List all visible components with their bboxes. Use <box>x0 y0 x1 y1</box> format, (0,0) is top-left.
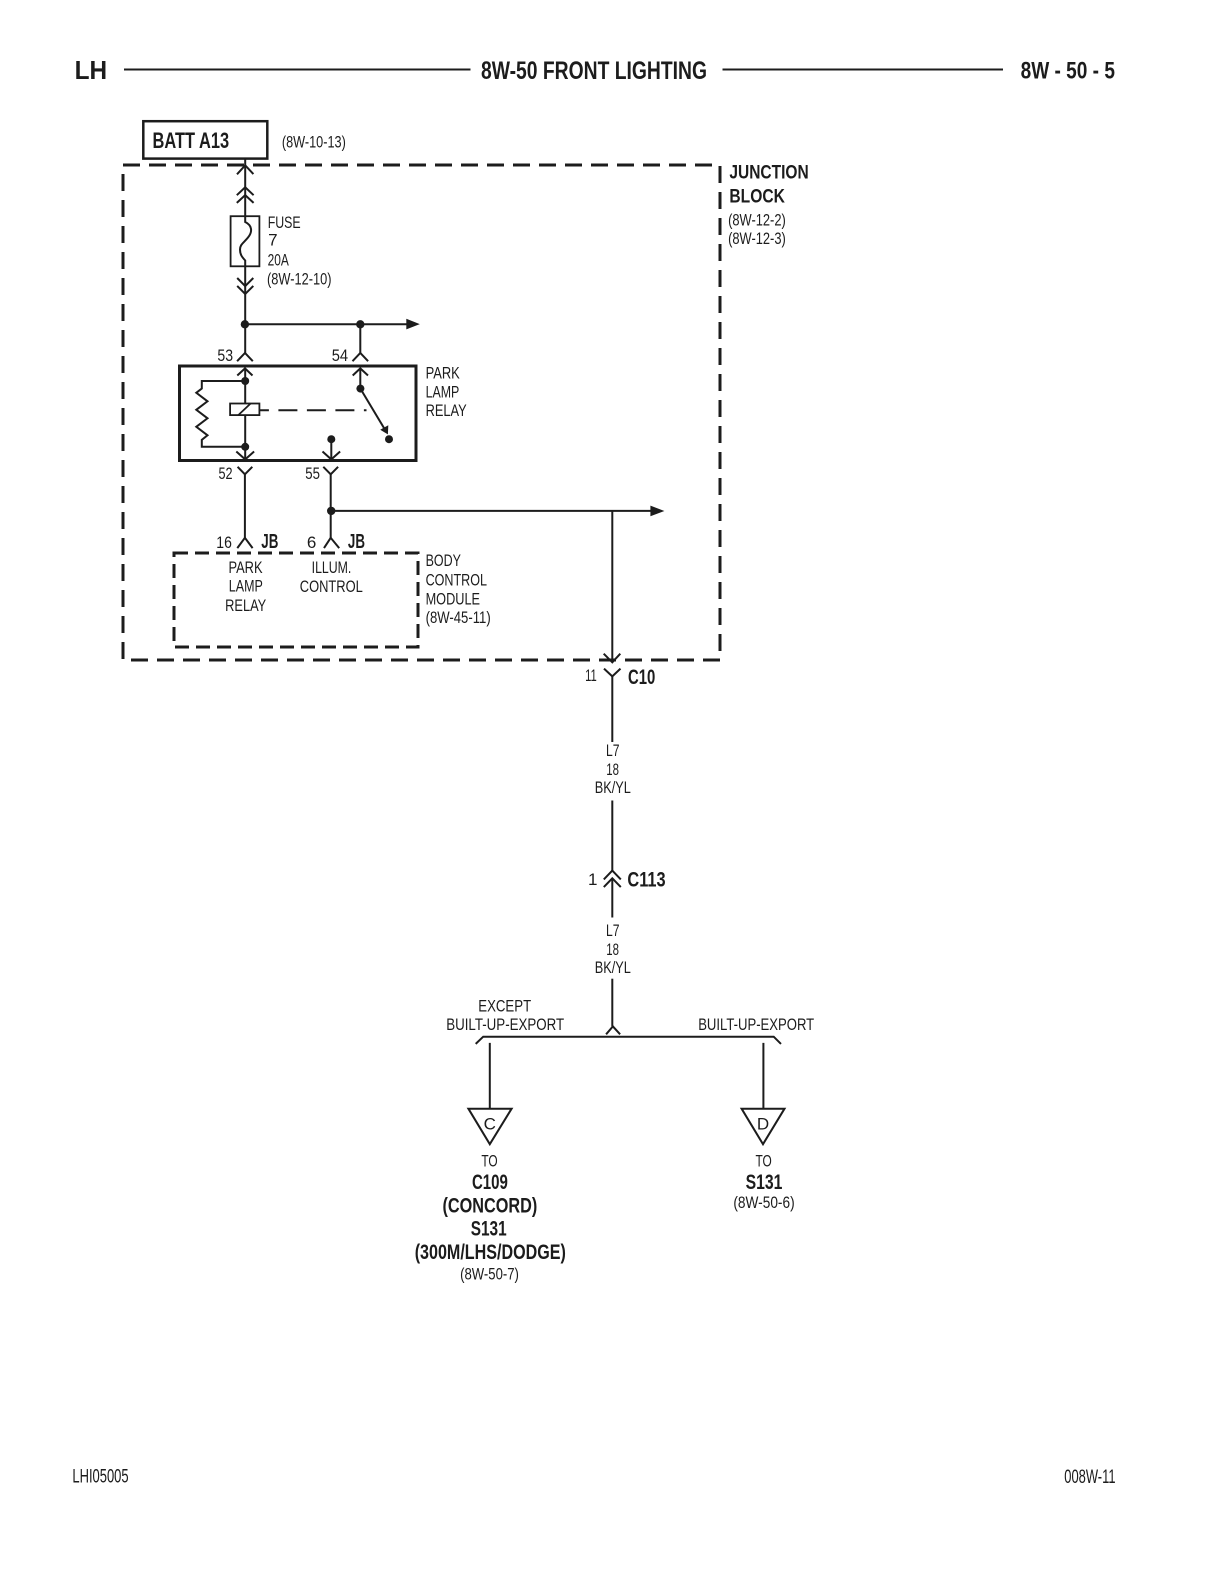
svg-text:ILLUM.: ILLUM. <box>312 558 352 577</box>
wire to off-page connector C <box>489 1043 491 1109</box>
inline connector chevrons below fuse <box>237 278 253 286</box>
relay coil <box>230 404 259 416</box>
label PARK LAMP RELAY <box>426 364 467 420</box>
svg-text:53: 53 <box>217 346 233 365</box>
wire: pin 54 to switch pivot <box>359 368 361 388</box>
svg-text:LAMP: LAMP <box>229 577 263 596</box>
wire: pin 52 to JB terminal 16 <box>244 474 246 538</box>
wire: label gap to C113 <box>611 801 613 871</box>
relay suppression resistor <box>196 381 245 447</box>
wire: pin 55 to JB terminal 6 <box>330 474 332 538</box>
junction block dashed boundary <box>123 165 720 660</box>
pin 54 male half <box>353 368 368 375</box>
pin 52 male half <box>236 452 254 460</box>
label ILLUM. CONTROL <box>300 558 363 596</box>
connector arrow into junction block <box>237 165 253 174</box>
fuse F7 20A <box>231 216 260 266</box>
svg-text:L7: L7 <box>606 741 620 760</box>
off-page connector D <box>742 1109 785 1145</box>
svg-text:MODULE: MODULE <box>426 590 480 609</box>
svg-text:(8W-45-11): (8W-45-11) <box>426 608 491 627</box>
header rule right <box>723 69 1004 71</box>
node: fused output junction <box>241 320 249 328</box>
svg-text:C10: C10 <box>628 666 655 689</box>
svg-text:PARK: PARK <box>228 558 263 577</box>
label EXCEPT BUILT-UP-EXPORT <box>446 997 564 1035</box>
inline connector chevrons above fuse <box>237 187 254 195</box>
svg-text:RELAY: RELAY <box>426 401 467 420</box>
svg-text:54: 54 <box>332 346 348 365</box>
svg-text:(300M/LHS/DODGE): (300M/LHS/DODGE) <box>415 1241 566 1264</box>
wire: illumination feed to C10 with arrow <box>331 506 664 517</box>
svg-text:1: 1 <box>588 870 597 889</box>
BATT A13 feed box <box>143 121 267 158</box>
svg-text:18: 18 <box>606 940 619 959</box>
svg-text:8W - 50 - 5: 8W - 50 - 5 <box>1021 57 1115 84</box>
wire label L7 18 BK/YL upper <box>595 741 631 797</box>
svg-text:JB: JB <box>261 530 278 553</box>
node: pin 55 contact <box>327 435 335 443</box>
header rule left <box>124 69 471 71</box>
wire: fuse to bus node <box>244 266 246 324</box>
svg-text:BK/YL: BK/YL <box>595 958 631 977</box>
svg-text:55: 55 <box>305 464 320 483</box>
node: coil top <box>241 377 249 385</box>
relay switch contact <box>385 435 393 443</box>
wire: pin 55 down <box>330 439 332 458</box>
wire: bus to the right with arrow <box>245 319 420 330</box>
svg-text:BLOCK: BLOCK <box>729 186 785 207</box>
pin 53 female half <box>237 353 253 361</box>
svg-text:LH: LH <box>75 55 108 85</box>
label TO S131 (8W-50-6) <box>733 1152 794 1213</box>
wire: junction block to C10 <box>611 511 613 662</box>
svg-text:CONTROL: CONTROL <box>426 571 487 590</box>
connector C10 female <box>604 669 621 677</box>
wire: BATT A13 feed down to fuse <box>244 159 246 217</box>
svg-text:BUILT-UP-EXPORT: BUILT-UP-EXPORT <box>698 1015 814 1034</box>
pin 53 male half <box>237 368 252 375</box>
svg-text:16: 16 <box>216 533 232 552</box>
node: branch to pin 54 <box>356 320 364 328</box>
svg-text:BUILT-UP-EXPORT: BUILT-UP-EXPORT <box>446 1015 564 1034</box>
svg-text:C113: C113 <box>627 868 665 891</box>
svg-text:S131: S131 <box>746 1171 783 1194</box>
label FUSE 7 20A (8W-12-10) <box>267 213 332 288</box>
svg-text:EXCEPT: EXCEPT <box>478 997 531 1016</box>
option split bracket <box>476 1026 781 1044</box>
pin 55 male half <box>323 452 341 460</box>
wire: C10 to label gap <box>611 676 613 742</box>
wire label L7 18 BK/YL lower <box>595 921 631 977</box>
JB terminal 16 <box>237 538 252 548</box>
svg-text:L7: L7 <box>606 921 620 940</box>
svg-text:JUNCTION: JUNCTION <box>729 163 808 184</box>
svg-text:8W-50 FRONT LIGHTING: 8W-50 FRONT LIGHTING <box>481 57 707 85</box>
svg-text:52: 52 <box>219 464 233 483</box>
wire: C113 to label gap <box>611 878 613 917</box>
wire: coil bottom to pin 52 <box>244 415 246 459</box>
connector C113 male chevrons <box>604 871 621 880</box>
svg-text:FUSE: FUSE <box>268 213 301 232</box>
svg-text:PARK: PARK <box>426 364 461 383</box>
svg-text:18: 18 <box>606 760 619 779</box>
relay switch pivot <box>356 385 364 393</box>
svg-text:(8W-50-6): (8W-50-6) <box>733 1193 794 1212</box>
label BODY CONTROL MODULE <box>426 551 491 627</box>
JB terminal 6 <box>324 538 339 548</box>
label PARK LAMP RELAY (inner) <box>225 558 266 615</box>
inner dashed box: BCM section <box>174 553 418 647</box>
node: coil bottom <box>241 443 249 451</box>
wire: node to pin 54 <box>359 324 361 353</box>
connector arrow out of junction block <box>604 654 621 663</box>
svg-text:BK/YL: BK/YL <box>595 778 631 797</box>
svg-text:TO: TO <box>481 1152 497 1171</box>
park lamp relay box <box>180 366 417 461</box>
wire: node to pin 53 <box>244 324 246 353</box>
relay armature dashed link <box>259 409 366 411</box>
svg-text:BATT A13: BATT A13 <box>153 128 230 153</box>
svg-text:(CONCORD): (CONCORD) <box>443 1195 538 1218</box>
svg-text:D: D <box>757 1115 769 1134</box>
node: illumination feed branch <box>327 507 335 515</box>
wire: pin 53 into coil <box>244 368 246 403</box>
svg-text:11: 11 <box>585 666 597 685</box>
svg-text:JB: JB <box>348 530 365 553</box>
pin 55 female half <box>323 467 338 475</box>
label TO C109 (CONCORD) S131 (300M/LHS/DODGE) (8W-50-7) <box>415 1152 566 1284</box>
svg-text:CONTROL: CONTROL <box>300 577 363 596</box>
svg-text:TO: TO <box>755 1152 771 1171</box>
svg-text:RELAY: RELAY <box>225 596 266 615</box>
pin 52 female half <box>238 467 253 475</box>
svg-text:6: 6 <box>307 533 316 552</box>
svg-text:(8W-12-2): (8W-12-2) <box>728 211 786 230</box>
svg-text:008W-11: 008W-11 <box>1064 1467 1115 1488</box>
svg-text:LAMP: LAMP <box>426 382 460 401</box>
off-page connector C <box>468 1109 511 1145</box>
svg-text:(8W-12-10): (8W-12-10) <box>267 269 332 288</box>
label JUNCTION BLOCK <box>728 163 809 249</box>
svg-text:(8W-10-13): (8W-10-13) <box>282 133 346 152</box>
pin 54 female half <box>353 353 369 361</box>
svg-text:7: 7 <box>268 231 277 250</box>
svg-text:LHI05005: LHI05005 <box>72 1467 128 1488</box>
svg-text:C109: C109 <box>472 1171 508 1194</box>
svg-text:20A: 20A <box>268 251 290 270</box>
relay switch blade <box>360 389 388 435</box>
wire to off-page connector D <box>762 1043 764 1109</box>
svg-text:(8W-12-3): (8W-12-3) <box>728 229 786 248</box>
svg-text:(8W-50-7): (8W-50-7) <box>460 1265 519 1284</box>
svg-text:S131: S131 <box>471 1218 507 1241</box>
svg-text:C: C <box>484 1115 496 1134</box>
wire: label gap to option split <box>611 979 613 1027</box>
svg-text:BODY: BODY <box>426 551 461 570</box>
